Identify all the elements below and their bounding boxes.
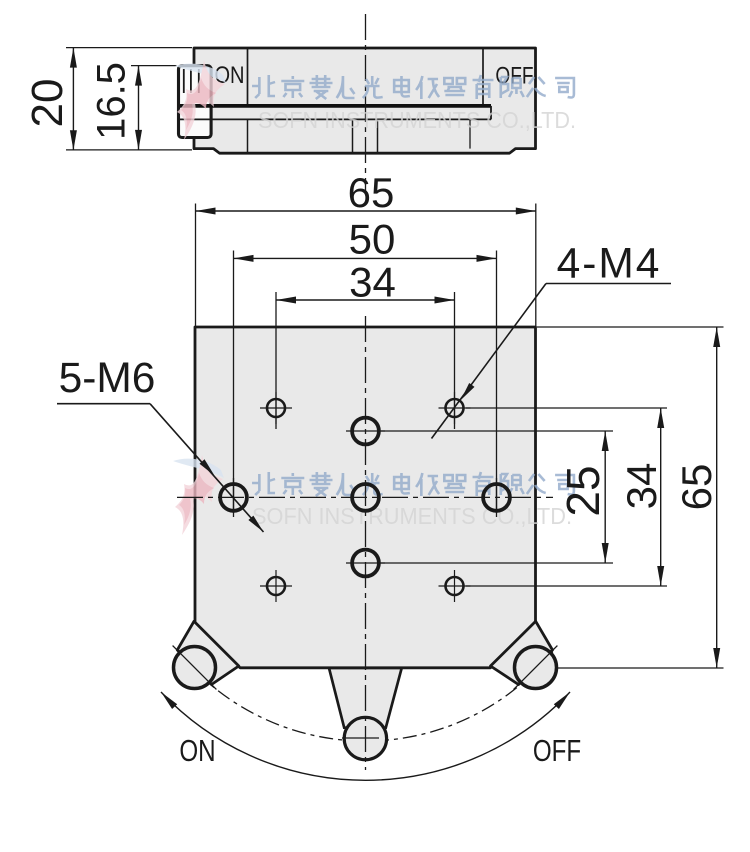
svg-text:16.5: 16.5 (90, 62, 134, 140)
svg-text:SOFN INSTRUMENTS CO.,LTD.: SOFN INSTRUMENTS CO.,LTD. (258, 107, 576, 133)
svg-text:SOFN INSTRUMENTS CO.,LTD.: SOFN INSTRUMENTS CO.,LTD. (252, 503, 572, 529)
svg-text:4-M4: 4-M4 (557, 241, 662, 288)
svg-text:ON: ON (179, 733, 215, 768)
svg-text:20: 20 (23, 79, 72, 128)
svg-text:25: 25 (557, 465, 609, 516)
svg-text:50: 50 (349, 216, 396, 263)
svg-text:65: 65 (348, 169, 395, 216)
svg-text:5-M6: 5-M6 (59, 355, 156, 402)
svg-text:OFF: OFF (533, 733, 581, 768)
svg-text:34: 34 (349, 259, 396, 306)
svg-text:65: 65 (673, 464, 720, 511)
svg-text:34: 34 (618, 463, 665, 510)
